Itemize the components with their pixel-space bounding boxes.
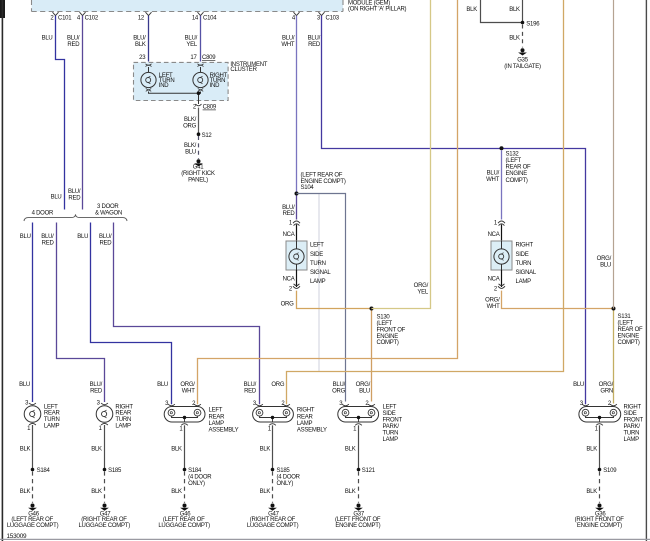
svg-text:NCA: NCA [283,232,295,238]
svg-text:TURN: TURN [383,431,399,437]
svg-text:NCA: NCA [283,277,295,283]
svg-text:ENGINE: ENGINE [506,171,528,177]
wire BLK from right side front park/turn lamp pin 1 to S109 [599,425,601,469]
svg-text:BLK: BLK [509,7,520,13]
svg-text:LAMP: LAMP [44,423,60,429]
splice S104 [295,192,299,196]
svg-text:BLU: BLU [359,389,370,395]
svg-text:RIGHT: RIGHT [115,405,133,411]
svg-text:RED: RED [68,196,81,202]
connector C102 pin 4 [77,12,99,21]
svg-text:RED: RED [90,389,103,395]
svg-text:TURN: TURN [310,261,326,267]
wire BLK/ORG from C809 pin 2 to splice S12 [198,108,200,135]
svg-text:(LEFT: (LEFT [618,321,634,327]
svg-text:REAR OF: REAR OF [506,165,532,171]
left side turn signal lamp [283,220,332,292]
wire BLK dashed from S185 to ground G47 [104,471,106,502]
svg-text:S104: S104 [301,185,315,191]
svg-text:LUGGAGE COMPT): LUGGAGE COMPT) [247,523,299,529]
svg-text:BLU/: BLU/ [133,35,146,41]
svg-text:ONLY): ONLY) [277,481,294,487]
inline connector at cluster pin 23 [146,64,152,67]
svg-text:BLU/: BLU/ [282,205,295,211]
svg-text:REAR: REAR [115,411,132,417]
svg-text:C102: C102 [85,16,99,22]
svg-text:C101: C101 [58,16,72,22]
svg-text:WHT: WHT [281,42,294,48]
svg-text:LAMP: LAMP [624,437,640,443]
svg-text:YEL: YEL [417,290,429,296]
svg-text:C809: C809 [203,105,217,111]
wire BLU/RED from S104 to left side turn signal lamp pin 1 [296,196,298,220]
wire ORG/GRN from S131 to right side front park/turn lamp pin 2 [613,311,615,404]
svg-text:S185: S185 [277,468,291,474]
svg-text:LEFT: LEFT [209,407,223,413]
svg-text:ORG: ORG [281,302,295,308]
inline connector at cluster pin 17 [198,64,204,67]
wire ORG/WHT from right side turn signal lamp pin 2 to splice S131 [502,291,614,309]
svg-text:BLK: BLK [466,7,477,13]
svg-text:BLU/: BLU/ [333,382,346,388]
svg-text:ASSEMBLY: ASSEMBLY [209,427,239,433]
svg-text:FRONT: FRONT [624,418,644,424]
svg-text:G41: G41 [193,165,205,171]
svg-text:BLU: BLU [600,263,611,269]
connector C104 pin 14 [192,12,217,21]
svg-text:SIDE: SIDE [383,411,396,417]
svg-text:LAMP: LAMP [115,423,131,429]
splice S185 [103,468,107,472]
ground G36 [575,504,625,529]
ground G47 (4 door) [247,504,299,529]
svg-text:WHT: WHT [182,389,195,395]
ground G37 [335,504,381,529]
svg-text:C103: C103 [326,16,340,22]
wire ORG from left side turn signal lamp pin 2 to splice S130 [297,291,372,309]
wire ORG/BLU from S130 to left side front park/turn lamp pin 2 [371,311,373,402]
svg-text:BLU: BLU [42,35,53,41]
svg-text:BLK: BLK [345,446,356,452]
svg-text:BLK: BLK [20,489,31,495]
svg-text:BLU: BLU [77,234,88,240]
ground G41 [181,159,215,183]
svg-text:BLU/: BLU/ [185,35,198,41]
svg-text:LEFT: LEFT [383,405,397,411]
wire BLU/RED from C103 pin 3 to corner, S132 line, down to right front lamp pin 3 [322,16,586,405]
wire BLK dashed from S184 to ground G46 [184,471,186,502]
wire ORG/WHT from top of page to left rear lamp assembly pin 2 [198,0,458,404]
svg-text:BLK: BLK [171,446,182,452]
svg-text:REAR OF: REAR OF [618,327,644,333]
wire BLK/BLU dashed from S12 to ground G41 [198,136,200,159]
svg-text:& WAGON: & WAGON [95,210,122,216]
svg-text:BLK: BLK [509,35,520,41]
wire BLK from right rear lamp assembly pin 1 to S185 [272,425,274,469]
wire BLU/RED (4 door) brace to right rear turn lamp pin 3 [57,223,105,403]
right side turn signal lamp [488,220,537,292]
svg-text:NCA: NCA [488,232,500,238]
wire BLK from left rear turn lamp pin 1 to S184 [32,425,34,470]
svg-text:BLU/: BLU/ [308,35,321,41]
faint wire trace [318,194,320,372]
ground G46 (4 door) [158,504,210,529]
wire joining indicator bulbs inside cluster [149,92,201,105]
svg-text:RED: RED [67,42,80,48]
wire BLU/WHT from S132 to right side turn signal lamp pin 1 [501,150,503,219]
svg-text:LEFT: LEFT [44,405,58,411]
splice S131 [612,307,616,311]
svg-text:BLU: BLU [573,382,584,388]
svg-text:LUGGAGE COMPT): LUGGAGE COMPT) [7,523,59,529]
svg-text:LAMP: LAMP [297,421,313,427]
wire BLK dashed from S185 to ground G47 [272,471,274,502]
svg-text:TURN: TURN [624,431,640,437]
svg-text:WHT: WHT [486,177,499,183]
svg-text:(IN TAILGATE): (IN TAILGATE) [504,64,541,70]
svg-text:C809: C809 [202,55,216,61]
svg-text:ORG: ORG [332,389,346,395]
svg-text:S109: S109 [603,468,617,474]
svg-text:C104: C104 [203,16,217,22]
splice S185 (4 door only) [271,468,275,472]
svg-text:RIGHT: RIGHT [516,243,534,249]
svg-text:RED: RED [244,389,257,395]
svg-text:LAMP: LAMP [209,421,225,427]
svg-text:153009: 153009 [7,533,28,540]
wire BLK dashed from S196 to ground G35 [522,25,524,48]
svg-text:RIGHT: RIGHT [297,407,315,413]
svg-text:TURN: TURN [115,417,131,423]
svg-text:IND: IND [159,83,170,89]
svg-text:BLU/: BLU/ [41,234,54,240]
svg-text:PARK/: PARK/ [383,424,400,430]
svg-text:ASSEMBLY: ASSEMBLY [297,427,327,433]
svg-text:SIDE: SIDE [516,252,529,258]
svg-text:S121: S121 [362,468,376,474]
svg-text:LAMP: LAMP [516,279,532,285]
svg-text:BLK: BLK [20,446,31,452]
svg-text:(4 DOOR: (4 DOOR [188,474,212,480]
svg-text:(4 DOOR: (4 DOOR [277,474,301,480]
svg-text:(ON RIGHT 'A' PILLAR): (ON RIGHT 'A' PILLAR) [348,6,407,12]
svg-text:COMPT): COMPT) [618,340,640,346]
svg-text:SIGNAL: SIGNAL [516,270,537,276]
svg-text:BLU/: BLU/ [282,35,295,41]
svg-text:BLU: BLU [19,382,30,388]
svg-text:BLK: BLK [260,446,271,452]
svg-text:RIGHT: RIGHT [624,405,642,411]
svg-text:ORG: ORG [271,382,285,388]
svg-text:ORG/: ORG/ [356,382,371,388]
svg-text:CLUSTER: CLUSTER [230,67,257,73]
connector C809 pin 2 [193,104,217,111]
svg-text:ORG/: ORG/ [485,297,500,303]
right rear turn lamp [96,401,133,432]
svg-text:SIGNAL: SIGNAL [310,270,331,276]
svg-text:4 DOOR: 4 DOOR [32,210,54,216]
junction node in cluster [197,91,201,95]
svg-text:G35: G35 [517,58,529,64]
right side front park/turn lamp [579,401,644,443]
wire BLU/YEL from C104 pin 14 to cluster pin 17 [200,16,202,62]
GEM pin 4 [292,12,300,21]
svg-text:PANEL): PANEL) [188,177,208,183]
wire BLK dashed from S184 to ground G46 [32,471,34,502]
svg-text:23: 23 [139,55,146,61]
svg-text:S196: S196 [526,22,540,28]
svg-text:ENGINE: ENGINE [618,333,640,339]
svg-text:BLK/: BLK/ [184,143,197,149]
svg-text:3 DOOR: 3 DOOR [97,204,119,210]
svg-text:COMPT): COMPT) [377,340,399,346]
svg-text:BLK: BLK [345,489,356,495]
svg-text:BLU/: BLU/ [67,35,80,41]
svg-text:BLK: BLK [586,489,597,495]
svg-text:BLU/: BLU/ [99,234,112,240]
svg-text:(LEFT: (LEFT [506,158,522,164]
splice S184 [31,468,35,472]
svg-text:TURN: TURN [516,261,532,267]
svg-text:FRONT: FRONT [383,418,403,424]
svg-text:S184: S184 [37,468,51,474]
ground G47 [78,504,130,529]
svg-text:RED: RED [308,42,321,48]
right rear lamp assembly [253,401,327,433]
right turn indicator bulb [193,67,228,91]
svg-text:COMPT): COMPT) [506,178,528,184]
wire BLK from top to splice S196 [481,0,522,23]
wire BLK from top to splice S196 (right) [522,0,524,23]
svg-text:(LEFT REAR OF: (LEFT REAR OF [301,172,343,178]
wire BLU/WHT from GEM pin 4 to splice S104 [296,16,298,194]
svg-text:BLU: BLU [20,234,31,240]
svg-text:17: 17 [190,55,197,61]
svg-text:ORG/: ORG/ [180,382,195,388]
svg-text:FRONT OF: FRONT OF [377,327,406,333]
svg-text:BLK: BLK [91,446,102,452]
ground G35 [504,48,541,70]
svg-text:BLU: BLU [51,195,62,201]
svg-text:BLU/: BLU/ [68,189,81,195]
svg-text:S130: S130 [377,315,391,321]
svg-text:LUGGAGE COMPT): LUGGAGE COMPT) [78,523,130,529]
wire BLU/RED (3 door/wagon) brace to right rear lamp assembly pin 3 [114,223,260,405]
svg-text:BLU: BLU [185,150,196,156]
svg-text:RED: RED [99,240,112,246]
svg-text:ONLY): ONLY) [188,481,205,487]
svg-text:12: 12 [138,16,145,22]
svg-text:LEFT: LEFT [310,243,324,249]
left rear turn lamp [24,401,60,432]
svg-text:LUGGAGE COMPT): LUGGAGE COMPT) [158,523,210,529]
svg-text:WHT: WHT [487,304,500,310]
svg-text:S185: S185 [108,468,122,474]
svg-text:TURN: TURN [44,417,60,423]
svg-text:REAR: REAR [209,414,226,420]
svg-text:PARK/: PARK/ [624,424,641,430]
svg-text:SIDE: SIDE [310,252,323,258]
svg-text:S132: S132 [506,151,520,157]
svg-text:S184: S184 [188,468,202,474]
svg-text:S12: S12 [202,133,213,139]
svg-text:ENGINE COMPT): ENGINE COMPT) [301,179,346,185]
svg-text:BLU/: BLU/ [244,382,257,388]
splice S196 [521,21,525,25]
wire BLU (4 door) brace to left rear turn lamp pin 3 [32,223,34,403]
module GEM (box, cut off at top) [32,0,407,12]
wire ORG/BLU from top of page to splice S131 [613,0,615,309]
svg-text:ORG: ORG [183,124,197,130]
svg-text:(RIGHT KICK: (RIGHT KICK [181,171,215,177]
svg-text:REAR: REAR [297,414,314,420]
svg-text:ORG/: ORG/ [414,283,429,289]
left rear lamp assembly [164,401,238,433]
wire BLK dashed from S109 to ground G36 [599,471,601,502]
svg-text:(LEFT: (LEFT [377,321,393,327]
svg-text:ENGINE COMPT): ENGINE COMPT) [335,523,380,529]
svg-text:LAMP: LAMP [383,437,399,443]
svg-text:BLK: BLK [586,446,597,452]
svg-text:ENGINE COMPT): ENGINE COMPT) [577,523,622,529]
wire BLK from left side front park/turn lamp pin 1 to S121 [358,425,360,469]
instrument cluster box [134,62,268,101]
connector C103 pin 3 [317,12,340,21]
svg-text:BLK: BLK [260,489,271,495]
svg-text:ENGINE: ENGINE [377,334,399,340]
wire BLU/BLK from GEM pin 12 to cluster pin 23 [148,16,150,62]
splice S12 [197,132,201,136]
svg-text:14: 14 [192,16,199,22]
svg-text:BLK/: BLK/ [184,117,197,123]
ground G46 [7,504,59,529]
brace 4 DOOR / 3 DOOR & WAGON harness split [24,204,127,221]
connector C101 pin 2 [50,12,72,21]
wire BLK dashed from S121 to ground G37 [358,471,360,502]
svg-text:YEL: YEL [186,42,198,48]
svg-text:ORG/: ORG/ [599,382,614,388]
svg-text:LAMP: LAMP [310,279,326,285]
wire BLK from left rear lamp assembly pin 1 to S184 [184,425,186,469]
left turn indicator bulb [141,67,175,91]
svg-text:S131: S131 [618,314,632,320]
wire BLU (3 door/wagon) brace to left rear lamp assembly pin 3 [91,223,172,405]
svg-text:BLU: BLU [157,382,168,388]
GEM pin 12 [138,12,152,21]
svg-text:ORG/: ORG/ [597,256,612,262]
svg-text:SIDE: SIDE [624,411,637,417]
svg-text:BLU/: BLU/ [90,382,103,388]
svg-text:RED: RED [283,211,296,217]
splice S121 [357,468,361,472]
left side front park/turn lamp [338,401,403,443]
wire ORG/YEL from S130 up to top of page [372,0,431,309]
svg-text:BLK: BLK [91,489,102,495]
wire BLK from right rear turn lamp pin 1 to S185 [104,425,106,470]
svg-text:BLK: BLK [171,489,182,495]
wire BLU/ORG from S104 to left side front park/turn lamp pin 3 [297,194,346,402]
svg-text:BLU/: BLU/ [487,170,500,176]
svg-text:NCA: NCA [488,277,500,283]
svg-text:REAR: REAR [44,411,61,417]
wire BLU/RED from C102 pin 4 to brace [82,16,84,210]
splice S130 [370,307,374,311]
svg-text:IND: IND [210,83,221,89]
wire ORG from top of page to right rear lamp assembly pin 2 [287,0,564,404]
svg-text:BLK: BLK [135,42,146,48]
splice S132 [500,146,504,150]
splice S184 (4 door only) [183,468,187,472]
svg-text:RED: RED [42,240,55,246]
wire BLU from C101 pin 2 to brace [56,16,65,210]
splice S109 [598,468,602,472]
svg-text:GRN: GRN [600,389,613,395]
